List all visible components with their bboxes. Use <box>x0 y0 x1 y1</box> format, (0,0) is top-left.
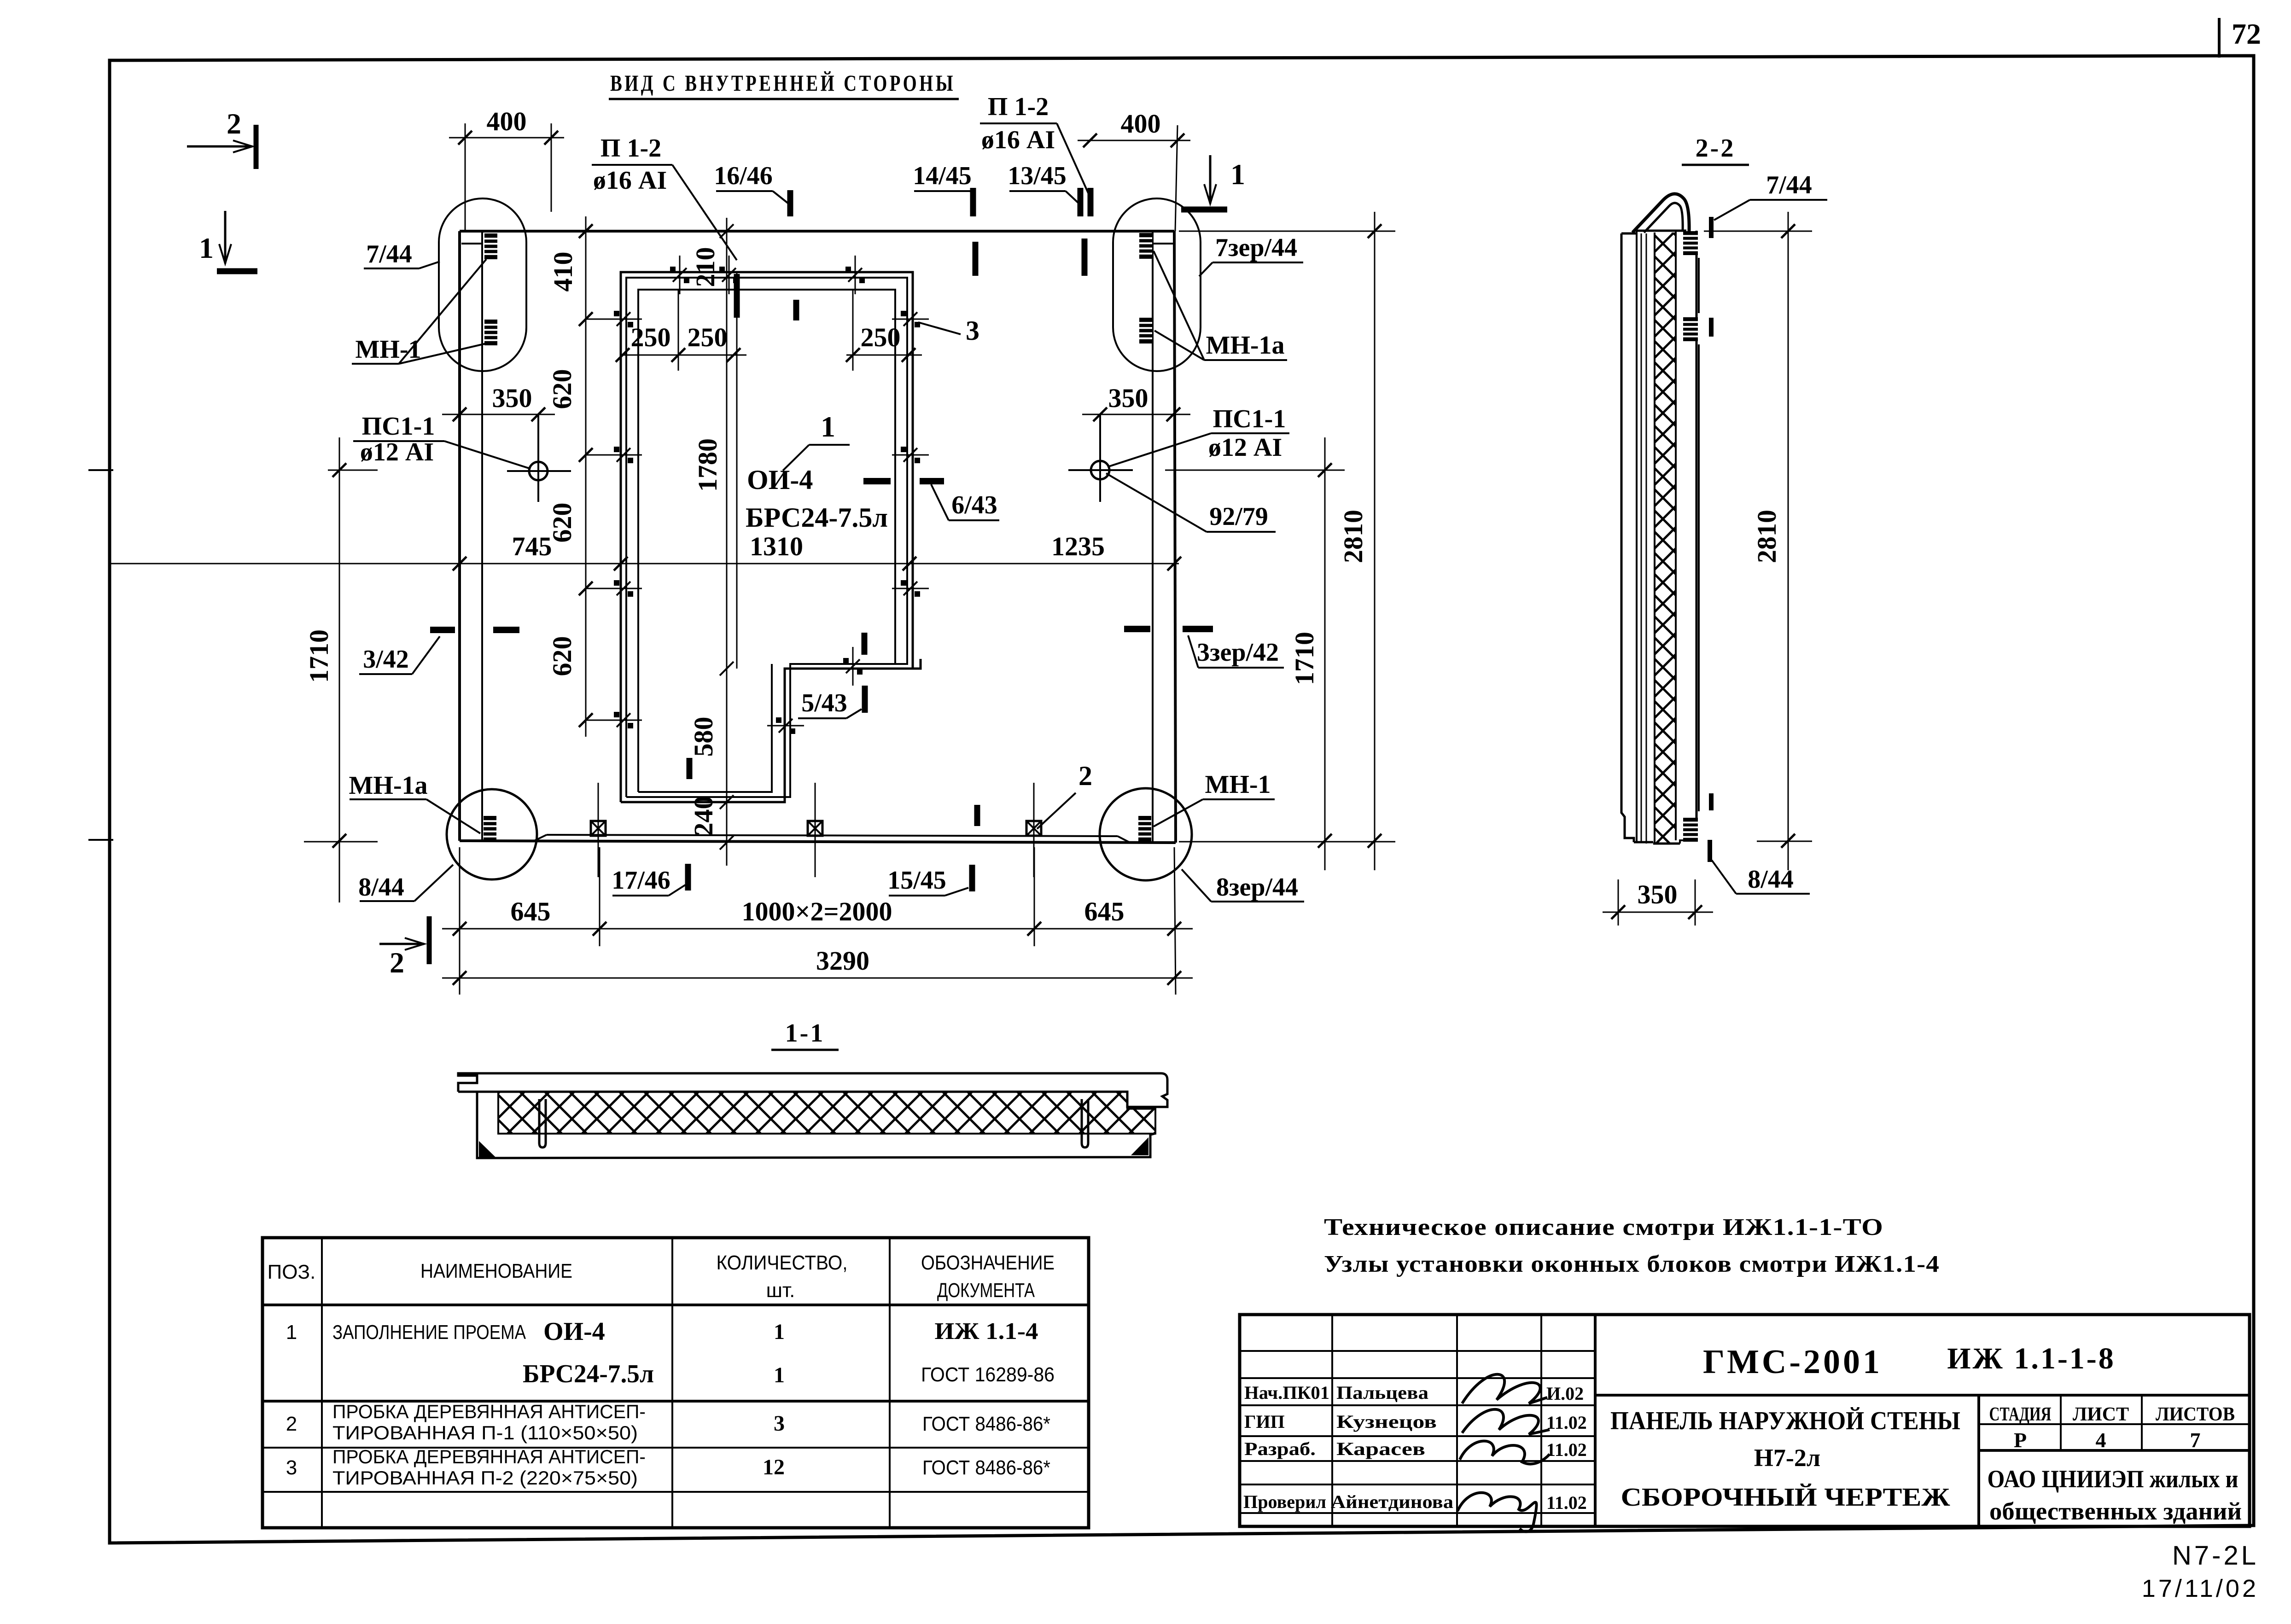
label MH-1a top-right <box>1154 251 1287 360</box>
svg-text:ПС1-1: ПС1-1 <box>362 412 435 441</box>
svg-text:645: 645 <box>511 896 551 926</box>
svg-text:2: 2 <box>227 107 241 140</box>
dimension row 745-1310-1235 <box>111 531 1181 570</box>
label MH-1 bottom-right <box>1154 770 1275 827</box>
svg-text:4: 4 <box>2096 1428 2106 1452</box>
plug P-1 bottom 2 <box>808 783 822 877</box>
svg-text:ГОСТ 8486-86*: ГОСТ 8486-86* <box>922 1456 1050 1479</box>
svg-text:ø12 АI: ø12 АI <box>360 438 434 466</box>
detail oval top-left <box>439 198 526 371</box>
svg-text:П 1-2: П 1-2 <box>600 134 661 163</box>
label 8зер/44 <box>1182 869 1304 902</box>
label 17/46 <box>612 864 688 896</box>
svg-text:1: 1 <box>199 232 214 264</box>
svg-text:ОИ-4: ОИ-4 <box>747 465 813 495</box>
parts table row 2 <box>286 1401 1050 1444</box>
svg-text:Н7-2л: Н7-2л <box>1754 1444 1820 1472</box>
page number 72 <box>2219 17 2261 58</box>
label 15/45 <box>887 865 972 896</box>
title block grid <box>1240 1315 2250 1526</box>
plug P-2 left 3 <box>605 580 642 597</box>
svg-text:П 1-2: П 1-2 <box>988 93 1049 121</box>
label 3 plug <box>918 315 979 346</box>
bar P1-2 left <box>734 274 740 318</box>
svg-text:400: 400 <box>1121 109 1161 139</box>
svg-text:Узлы установки оконных блоков: Узлы установки оконных блоков смотри ИЖ1… <box>1324 1251 1940 1277</box>
note line 2 <box>1324 1251 1940 1277</box>
svg-text:2: 2 <box>1078 761 1092 791</box>
svg-text:ПРОБКА ДЕРЕВЯННАЯ АНТИСЕП-: ПРОБКА ДЕРЕВЯННАЯ АНТИСЕП- <box>332 1401 646 1422</box>
label OI-4 <box>747 465 813 495</box>
svg-text:8/44: 8/44 <box>358 873 404 902</box>
dimension 1710 right <box>1165 437 1345 870</box>
svg-text:1-1: 1-1 <box>785 1019 825 1048</box>
window block inner outline <box>638 290 895 792</box>
signatures <box>1457 1374 1550 1532</box>
dimension 350 left <box>442 383 555 421</box>
plug P-1 bottom 3 <box>1026 783 1041 877</box>
section 2-2 pin middle <box>1683 317 1698 341</box>
svg-text:6/43: 6/43 <box>951 491 997 519</box>
dimension 580 <box>688 717 718 757</box>
svg-text:ТИРОВАННАЯ П-1 (110×50×50): ТИРОВАННАЯ П-1 (110×50×50) <box>332 1422 638 1444</box>
svg-text:7: 7 <box>2190 1428 2201 1452</box>
svg-text:1: 1 <box>821 410 835 443</box>
section 1-1 bottom slab <box>477 1092 1155 1158</box>
svg-text:1710: 1710 <box>1289 632 1319 685</box>
svg-text:ИЖ 1.1-4: ИЖ 1.1-4 <box>935 1318 1038 1345</box>
svg-text:620: 620 <box>547 636 577 676</box>
label P1-2 f16 AI right <box>980 93 1090 198</box>
svg-text:250: 250 <box>688 322 728 352</box>
svg-text:7/44: 7/44 <box>1766 171 1812 199</box>
svg-text:ЗАПОЛНЕНИЕ ПРОЕМА: ЗАПОЛНЕНИЕ ПРОЕМА <box>332 1321 526 1344</box>
fold mark left upper <box>88 469 113 471</box>
parts table row 1 <box>286 1317 1055 1388</box>
plug P-2 right 2 <box>892 447 929 463</box>
section marker 1 left <box>199 211 257 271</box>
svg-text:11.02: 11.02 <box>1546 1492 1587 1513</box>
label P1-2 f16 AI left <box>592 134 737 260</box>
svg-text:МН-1а: МН-1а <box>349 771 427 800</box>
svg-text:ПС1-1: ПС1-1 <box>1213 405 1286 433</box>
plug P-2 left 1 <box>605 311 642 327</box>
label 14/45 <box>913 162 973 216</box>
label 1 window <box>783 410 850 471</box>
svg-text:ОБОЗНАЧЕНИЕ: ОБОЗНАЧЕНИЕ <box>921 1251 1055 1274</box>
label PS1-1 right <box>1108 405 1289 467</box>
svg-text:Разраб.: Разраб. <box>1244 1438 1316 1459</box>
dimension 400 left <box>449 106 564 231</box>
svg-text:11.02: 11.02 <box>1546 1412 1587 1433</box>
title block stage cells <box>1989 1404 2235 1452</box>
label MH-1a bottom-left <box>349 771 480 833</box>
svg-text:N7-2L: N7-2L <box>2172 1541 2259 1571</box>
plug P-2 top 3 <box>845 256 865 294</box>
label 16/46 <box>714 162 790 216</box>
parts table row 3 <box>286 1446 1050 1489</box>
plug P-2 step horiz <box>843 647 863 686</box>
anchor MH-1a top-right upper <box>1139 233 1152 259</box>
svg-text:ø16 АI: ø16 АI <box>593 166 667 195</box>
dimension 1780 <box>693 272 737 850</box>
plug P-2 left 2 <box>605 447 642 463</box>
section marker 2 top <box>187 107 256 169</box>
svg-text:1: 1 <box>774 1320 785 1344</box>
dimension 3290 <box>442 847 1193 995</box>
svg-text:350: 350 <box>492 383 532 413</box>
anchor MH-1 top-left upper <box>484 233 497 259</box>
svg-text:3/42: 3/42 <box>363 645 409 674</box>
panel inner edge lines <box>461 231 1173 843</box>
svg-text:БРС24-7.5л: БРС24-7.5л <box>746 502 888 533</box>
svg-text:Айнетдинова: Айнетдинова <box>1331 1491 1453 1512</box>
title block organization <box>1988 1465 2242 1525</box>
trace dash 15/45 <box>974 805 980 826</box>
svg-text:72: 72 <box>2232 17 2261 50</box>
section 2-2 lifting loop <box>1632 194 1689 233</box>
svg-text:1: 1 <box>1230 158 1245 191</box>
trace dash 5/43 <box>862 633 868 655</box>
svg-text:1780: 1780 <box>693 438 723 492</box>
svg-text:ТИРОВАННАЯ П-2 (220×75×50): ТИРОВАННАЯ П-2 (220×75×50) <box>332 1467 638 1489</box>
svg-text:Карасев: Карасев <box>1336 1438 1425 1459</box>
label 92/79 <box>1106 473 1276 532</box>
dimension 240 <box>688 796 718 836</box>
svg-text:3290: 3290 <box>816 946 869 976</box>
svg-text:15/45: 15/45 <box>887 866 946 895</box>
svg-text:13/45: 13/45 <box>1008 162 1067 190</box>
svg-text:1710: 1710 <box>304 629 334 683</box>
svg-text:Нач.ПК01: Нач.ПК01 <box>1244 1382 1329 1403</box>
footer date <box>2142 1575 2259 1602</box>
label 7/44 <box>364 240 440 268</box>
dimension 350 section <box>1603 879 1713 926</box>
dimension 2810 section <box>1704 212 1812 870</box>
svg-text:1235: 1235 <box>1051 531 1105 561</box>
svg-text:КОЛИЧЕСТВО,: КОЛИЧЕСТВО, <box>717 1251 848 1274</box>
svg-text:1: 1 <box>774 1363 785 1387</box>
svg-text:2: 2 <box>390 946 404 979</box>
svg-text:ПАНЕЛЬ НАРУЖНОЙ СТЕНЫ: ПАНЕЛЬ НАРУЖНОЙ СТЕНЫ <box>1610 1407 1960 1435</box>
section 1-1 insulation hatch <box>498 1092 1155 1134</box>
svg-text:И.02: И.02 <box>1546 1383 1584 1404</box>
label BRS24-7.5l <box>746 502 888 533</box>
panel outer outline <box>460 231 1176 843</box>
svg-text:11.02: 11.02 <box>1546 1439 1587 1460</box>
label 5/43 <box>798 686 865 718</box>
svg-text:Кузнецов: Кузнецов <box>1336 1411 1437 1432</box>
svg-text:СТАДИЯ: СТАДИЯ <box>1989 1404 2052 1425</box>
anchor MH-1 top-left lower <box>484 320 497 345</box>
section 2-2 pin top <box>1683 231 1698 255</box>
plug P-2 left 4 <box>605 712 642 728</box>
svg-text:ЛИСТОВ: ЛИСТОВ <box>2156 1404 2235 1425</box>
dimension row 645-2000-645 <box>442 847 1193 946</box>
section 2-2 title <box>1682 134 1749 165</box>
section marker 1 right <box>1181 155 1245 210</box>
plug P-2 right 3 <box>892 580 929 597</box>
dimension 400 right <box>1078 109 1190 231</box>
svg-text:БРС24-7.5л: БРС24-7.5л <box>523 1360 654 1388</box>
svg-text:12: 12 <box>763 1455 785 1479</box>
note line 1 <box>1324 1214 1883 1240</box>
fold mark left lower <box>88 839 113 841</box>
svg-text:8зер/44: 8зер/44 <box>1216 873 1298 902</box>
parts table header <box>268 1251 1055 1302</box>
parts table grid <box>262 1238 1089 1528</box>
svg-text:2810: 2810 <box>1752 510 1782 563</box>
anchor MH-1 bottom-right <box>1138 816 1151 842</box>
svg-text:ДОКУМЕНТА: ДОКУМЕНТА <box>937 1279 1035 1302</box>
section 1-1 dowel right <box>1082 1099 1088 1147</box>
label 7/44 section <box>1714 171 1827 220</box>
trace dash 13/45 <box>1082 239 1088 276</box>
svg-text:14/45: 14/45 <box>913 162 972 190</box>
label 6/43 <box>863 481 999 520</box>
section marker 2 bottom <box>379 916 429 979</box>
detail oval top-right <box>1113 198 1201 371</box>
svg-text:2810: 2810 <box>1338 510 1368 563</box>
svg-text:общественных зданий: общественных зданий <box>1989 1497 2242 1525</box>
dimension 210 <box>690 218 734 866</box>
anchor MH-1a top-right lower <box>1139 318 1152 343</box>
window opening second line <box>626 278 907 797</box>
svg-text:1000×2=2000: 1000×2=2000 <box>741 896 892 926</box>
signature rows text <box>1243 1382 1587 1513</box>
svg-text:620: 620 <box>547 369 577 409</box>
svg-text:ПОЗ.: ПОЗ. <box>268 1261 316 1283</box>
plug P-2 step vert <box>767 717 804 734</box>
svg-text:Р: Р <box>2014 1428 2027 1452</box>
svg-text:ЛИСТ: ЛИСТ <box>2073 1404 2129 1425</box>
svg-text:1: 1 <box>286 1321 297 1344</box>
svg-text:250: 250 <box>631 322 671 352</box>
svg-text:ГМС-2001: ГМС-2001 <box>1703 1343 1883 1381</box>
svg-text:Техническое описание смотри ИЖ: Техническое описание смотри ИЖ1.1-1-ТО <box>1324 1214 1883 1240</box>
lifting point circle right <box>1068 414 1133 502</box>
svg-text:Проверил: Проверил <box>1243 1491 1326 1512</box>
svg-text:ПРОБКА ДЕРЕВЯННАЯ АНТИСЕП-: ПРОБКА ДЕРЕВЯННАЯ АНТИСЕП- <box>332 1446 646 1467</box>
title block name <box>1610 1407 1960 1512</box>
svg-text:7зер/44: 7зер/44 <box>1215 233 1297 262</box>
label PS1-1 f12 AI left <box>353 412 530 469</box>
svg-text:210: 210 <box>690 247 720 287</box>
footer code N7-2L <box>2172 1541 2259 1571</box>
svg-text:3: 3 <box>774 1411 785 1436</box>
svg-text:350: 350 <box>1108 383 1148 413</box>
svg-text:ГОСТ 8486-86*: ГОСТ 8486-86* <box>922 1413 1050 1435</box>
trace dash 16/46 <box>793 300 799 320</box>
detail circle bottom-right <box>1100 788 1192 880</box>
svg-text:2: 2 <box>286 1413 297 1435</box>
svg-text:92/79: 92/79 <box>1209 502 1268 531</box>
section 1-1 top slab <box>458 1073 1167 1107</box>
main view title <box>609 70 959 99</box>
plug P-1 bottom 1 <box>591 783 606 877</box>
svg-text:ø12 АI: ø12 АI <box>1208 433 1282 462</box>
svg-text:1310: 1310 <box>750 531 803 561</box>
section 2-2 insulation hatch <box>1655 233 1676 843</box>
svg-text:16/46: 16/46 <box>714 162 773 190</box>
section 2-2 tick marks <box>1710 217 1711 862</box>
svg-text:3: 3 <box>286 1456 297 1479</box>
plug P-2 top 2 <box>719 256 739 294</box>
section 1-1 title <box>771 1019 839 1050</box>
svg-text:ГОСТ 16289-86: ГОСТ 16289-86 <box>921 1363 1055 1386</box>
svg-text:МН-1: МН-1 <box>1205 770 1271 799</box>
svg-text:СБОРОЧНЫЙ ЧЕРТЕЖ: СБОРОЧНЫЙ ЧЕРТЕЖ <box>1621 1483 1951 1512</box>
svg-text:410: 410 <box>548 252 578 292</box>
svg-text:ОИ-4: ОИ-4 <box>543 1317 605 1346</box>
bar P1-2 right <box>1088 188 1094 216</box>
svg-text:645: 645 <box>1084 896 1125 926</box>
svg-text:ИЖ 1.1-1-8: ИЖ 1.1-1-8 <box>1947 1342 2116 1375</box>
label 3/42 <box>359 630 519 674</box>
svg-text:ОАО ЦНИИЭП жилых и: ОАО ЦНИИЭП жилых и <box>1988 1465 2239 1493</box>
svg-text:250: 250 <box>861 322 901 352</box>
svg-text:ГИП: ГИП <box>1244 1411 1285 1432</box>
svg-text:580: 580 <box>688 717 718 757</box>
svg-text:240: 240 <box>688 796 718 836</box>
label 2 plug <box>1037 761 1092 829</box>
plug P-2 right 1 <box>892 311 929 327</box>
svg-text:17/11/02: 17/11/02 <box>2142 1575 2259 1602</box>
dimension 2810 right <box>1179 212 1395 870</box>
svg-text:шт.: шт. <box>766 1279 795 1302</box>
svg-text:МН-1а: МН-1а <box>1206 331 1284 360</box>
dimension 250 right <box>846 290 922 371</box>
svg-text:2-2: 2-2 <box>1696 134 1736 163</box>
svg-text:3зер/42: 3зер/42 <box>1197 638 1279 667</box>
bottom ledge strip <box>534 835 1129 842</box>
title block codes <box>1703 1342 2116 1381</box>
section 1-1 dowel left <box>539 1099 546 1147</box>
svg-text:8/44: 8/44 <box>1748 865 1794 894</box>
label 8/44 section <box>1712 860 1810 894</box>
section 2-2 pin bottom <box>1683 818 1698 842</box>
trace dash 17/46 <box>687 758 693 779</box>
anchor MH-1a bottom-left <box>484 816 496 842</box>
label 7зер/44 <box>1199 233 1303 276</box>
dimension chain 410-620-620-620 <box>547 216 631 737</box>
svg-text:350: 350 <box>1638 879 1678 909</box>
svg-text:7/44: 7/44 <box>366 240 412 268</box>
svg-text:17/46: 17/46 <box>612 866 670 895</box>
svg-text:ø16 АI: ø16 АI <box>981 126 1055 154</box>
label 3зер/42 <box>1124 629 1284 668</box>
trace dash 14/45 <box>973 242 979 276</box>
dimension 1710 left <box>304 437 378 902</box>
label 8/44 bottom-left <box>358 865 453 902</box>
section 2-2 panel outline <box>1621 231 1699 844</box>
svg-text:Пальцева: Пальцева <box>1336 1382 1428 1403</box>
detail circle bottom-left <box>447 789 537 879</box>
svg-text:400: 400 <box>487 106 527 136</box>
label MH-1 top-left <box>352 259 488 364</box>
window opening outer line <box>621 272 921 802</box>
svg-text:745: 745 <box>512 531 552 561</box>
dimension 250 250 left <box>616 290 746 371</box>
lifting point circle left <box>507 414 571 502</box>
svg-text:5/43: 5/43 <box>801 689 847 717</box>
svg-text:3: 3 <box>966 315 979 346</box>
label 13/45 <box>1008 162 1080 216</box>
dimension 350 right <box>1082 383 1190 421</box>
plug P-2 top 1 <box>670 256 689 294</box>
svg-text:НАИМЕНОВАНИЕ: НАИМЕНОВАНИЕ <box>420 1260 572 1282</box>
svg-text:ВИД С ВНУТРЕННЕЙ СТОРОНЫ: ВИД С ВНУТРЕННЕЙ СТОРОНЫ <box>610 70 956 96</box>
